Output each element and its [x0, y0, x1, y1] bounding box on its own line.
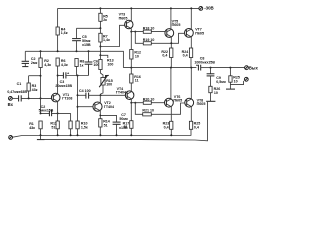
- wire VT2 emitter path: [100, 111, 116, 122]
- capacitor C4: [78, 89, 127, 99]
- resistor R2: [39, 51, 51, 75]
- resistor R14: [99, 119, 110, 136]
- svg-text:R21 10: R21 10: [142, 109, 154, 113]
- node VT2 emitter jog: [99, 115, 101, 117]
- wire ground rail A: [13, 136, 192, 138]
- svg-text:C1: C1: [17, 82, 22, 86]
- wire VT3emitter long vertical: [130, 32, 132, 74]
- node rail 77.2: [77, 134, 79, 136]
- terminal ground input: [9, 136, 13, 140]
- wire y113 line: [41, 112, 71, 114]
- node 171,43: [170, 42, 172, 44]
- wire VT7 emitter to R24: [190, 37, 192, 48]
- node 100,95.3: [100, 94, 102, 96]
- node 100,46.7: [99, 46, 101, 48]
- ground R27: [226, 88, 235, 90]
- svg-text:ГТ404: ГТ404: [104, 105, 114, 109]
- wire VT3 base feed: [100, 25, 124, 46]
- trimmer R15: [99, 75, 113, 95]
- node 191.3,67.6: [190, 67, 192, 69]
- capacitor C5 electrolytic: [72, 28, 91, 51]
- svg-text:R18 10: R18 10: [143, 27, 155, 31]
- resistor R19: [143, 38, 155, 45]
- resistor R25: [189, 121, 200, 135]
- svg-text:2к: 2к: [103, 18, 107, 22]
- wire stub R13: [100, 55, 107, 58]
- node 58,51: [57, 50, 59, 52]
- wire mid bias line y51: [25, 51, 123, 67]
- wire VT4 emitter down to R17: [130, 103, 132, 121]
- wire VT1 collector: [57, 76, 59, 94]
- label R13: [107, 59, 114, 67]
- node emitter VT4 a: [130, 102, 132, 104]
- svg-text:10: 10: [214, 91, 218, 95]
- wire R4 to node51: [57, 35, 59, 51]
- svg-text:11: 11: [135, 79, 139, 83]
- ground symbol main: [37, 135, 45, 139]
- capacitor C3 line: [55, 71, 88, 88]
- node 230.4,67.6: [229, 67, 231, 69]
- wire VT4 emitter nodes: [130, 99, 132, 103]
- wire VT2 base: [78, 106, 93, 108]
- resistor R11 vt1 emitter: [50, 121, 59, 135]
- capacitor C2 series: [39, 105, 54, 116]
- svg-text:Вх: Вх: [8, 102, 14, 107]
- wire R20 row: [131, 102, 164, 104]
- wire R7 to node55: [99, 47, 101, 56]
- node input base: [28, 97, 30, 99]
- transistor VT6 output bottom-left: [165, 95, 183, 107]
- wire return line B: [41, 102, 208, 141]
- node 40.5,98.4: [40, 97, 42, 99]
- transistor VT8 output bottom-right: [185, 98, 206, 107]
- node 77.2,95.3: [77, 94, 79, 96]
- capacitor C8 output electrolytic: [194, 56, 215, 70]
- resistor R20: [143, 98, 155, 105]
- resistor R23: [163, 121, 173, 135]
- svg-text:1,4к: 1,4к: [103, 38, 110, 42]
- svg-text:51: 51: [51, 125, 55, 129]
- node 100,55.3: [99, 54, 101, 56]
- resistor R26: [209, 86, 220, 101]
- wire R21 row: [135, 103, 184, 115]
- svg-text:0,4: 0,4: [164, 125, 169, 129]
- wire R2 lower leg: [40, 76, 42, 114]
- wire VT7 collector: [190, 8, 192, 29]
- node emitter VT3 b: [134, 31, 136, 33]
- node rail-VT7 collector: [190, 7, 192, 9]
- wire R18 row: [131, 31, 165, 33]
- svg-text:х15В: х15В: [119, 126, 128, 130]
- wire y113 corner down: [70, 113, 72, 121]
- wire x77 column: [77, 76, 79, 122]
- svg-text:100: 100: [107, 63, 113, 67]
- wire top supply rail: [58, 7, 199, 9]
- wire VT3 emitter: [130, 28, 132, 31]
- resistor R12: [130, 50, 141, 60]
- node rail 100: [99, 134, 101, 136]
- transistor VT4 driver bottom: [116, 87, 134, 100]
- wire output line y67.6: [123, 67, 196, 69]
- svg-text:П605: П605: [119, 16, 128, 20]
- svg-text:-30B: -30B: [204, 6, 214, 11]
- terminal +30V: [199, 6, 214, 11]
- svg-text:1,6к: 1,6к: [61, 31, 68, 35]
- svg-text:100: 100: [106, 83, 112, 87]
- resistor R27 column: [229, 68, 240, 89]
- svg-text:10: 10: [234, 79, 238, 83]
- transistor VT1 input: [51, 93, 72, 102]
- terminal output ground: [230, 77, 248, 84]
- resistor R21: [142, 109, 154, 116]
- svg-text:0,4: 0,4: [183, 54, 188, 58]
- resistor R10: [76, 121, 88, 135]
- node rail 171.3: [170, 134, 172, 136]
- capacitor C1 input: [7, 82, 51, 102]
- wire output right: [211, 67, 245, 69]
- svg-text:4,3к: 4,3к: [44, 63, 51, 67]
- transistor VT2: [93, 101, 114, 111]
- resistor R12: [69, 121, 72, 135]
- wire C6 riser: [88, 64, 90, 75]
- wire bias node y75.7: [29, 75, 41, 77]
- svg-text:х15В: х15В: [82, 43, 91, 47]
- svg-text:5мкх15В: 5мкх15В: [39, 108, 54, 112]
- node rail-VT3 collector: [130, 7, 132, 9]
- input terminal: [8, 97, 14, 108]
- svg-text:R20 10: R20 10: [143, 98, 155, 102]
- node 41,75.7: [40, 75, 42, 77]
- svg-text:C4 100: C4 100: [79, 89, 91, 93]
- resistor R9: [99, 55, 103, 77]
- svg-text:10: 10: [135, 54, 139, 58]
- svg-text:R19 10: R19 10: [143, 38, 155, 42]
- node 57.7,75.5: [57, 75, 59, 77]
- svg-text:0,47мкх63В: 0,47мкх63В: [7, 90, 27, 94]
- node 131,67.6: [130, 67, 132, 69]
- svg-text:+: +: [67, 71, 70, 75]
- wire VT8 emitter to R25: [190, 107, 192, 122]
- svg-text:43к: 43к: [29, 126, 35, 130]
- wire VT6 collector: [170, 68, 172, 99]
- node emitter VT4 b: [134, 102, 136, 104]
- node rail 58: [57, 134, 59, 136]
- node 76,51: [76, 50, 78, 52]
- terminal output: [245, 66, 259, 71]
- svg-text:1к: 1к: [80, 63, 84, 67]
- resistor R17: [123, 121, 133, 136]
- svg-text:0,5мк: 0,5мк: [216, 80, 226, 84]
- wire VT5 collector: [170, 8, 172, 29]
- svg-text:ГТ404: ГТ404: [116, 91, 126, 95]
- capacitor C9 zobel: [207, 68, 226, 87]
- transistor VT5 output top-left: [165, 20, 181, 38]
- svg-text:0,4: 0,4: [162, 54, 167, 58]
- capacitor C7: [113, 113, 128, 136]
- resistor R4: [56, 27, 68, 35]
- node emitter VT3 a: [130, 31, 132, 33]
- node 40.7,113.4: [40, 112, 42, 114]
- svg-text:50мк: 50мк: [119, 117, 128, 121]
- svg-text:2мк: 2мк: [31, 61, 38, 65]
- resistor R5: [99, 8, 108, 28]
- wire R25 corner to rail: [190, 134, 192, 136]
- svg-text:4,3к: 4,3к: [61, 63, 68, 67]
- svg-text:51: 51: [104, 123, 108, 127]
- transistor VT7 output top-right: [185, 28, 205, 38]
- transistor VT3 driver top: [119, 13, 133, 29]
- svg-text:1,5к: 1,5к: [81, 125, 88, 129]
- svg-text:C7: C7: [121, 113, 126, 117]
- resistor R18: [143, 27, 155, 34]
- node 210.7,67.6: [210, 67, 212, 69]
- resistor R8: [75, 59, 84, 76]
- svg-text:П605: П605: [197, 102, 206, 106]
- wire VT2 collector: [99, 95, 101, 102]
- wire R19 row: [135, 32, 184, 44]
- wire VT6 emitter to R23: [170, 107, 172, 122]
- svg-text:Вых: Вых: [249, 66, 259, 71]
- svg-text:П605: П605: [195, 31, 204, 35]
- node rail 131.3: [130, 134, 132, 136]
- svg-text:0,4: 0,4: [194, 125, 199, 129]
- node 58,113.4: [57, 112, 59, 114]
- resistor R7: [99, 28, 110, 46]
- wire rail left drop to R4: [57, 8, 59, 27]
- node 170.9,67.6: [170, 67, 172, 69]
- svg-text:43к: 43к: [32, 88, 38, 92]
- node 77.2,106.7: [77, 106, 79, 108]
- capacitor C6: [85, 51, 100, 75]
- resistor R3: [27, 76, 38, 99]
- wire VT8 collector: [190, 68, 192, 99]
- node rail-VT5 collector: [170, 7, 172, 9]
- resistor R22: [161, 48, 173, 68]
- svg-text:20мкх15В: 20мкх15В: [55, 84, 72, 88]
- svg-text:П605: П605: [172, 23, 181, 27]
- wire VT3 collector: [130, 8, 132, 21]
- ground zobel: [206, 100, 215, 102]
- node rail-R5: [99, 7, 101, 9]
- wire VT5 emitter to R22: [170, 37, 172, 48]
- capacitor C2a with ground: [22, 51, 38, 66]
- node 100,28: [99, 27, 101, 29]
- node rail 116.4: [116, 134, 118, 136]
- node rail 40.7: [40, 134, 42, 136]
- svg-text:ГТ108: ГТ108: [62, 97, 72, 101]
- resistor R1: [29, 121, 42, 135]
- node 41,51: [40, 50, 42, 52]
- wire VT1 emitter down: [57, 102, 59, 121]
- svg-text:1000мкх25В: 1000мкх25В: [194, 60, 215, 64]
- node 77.2,75.5: [77, 75, 79, 77]
- node 88.5,51: [88, 50, 90, 52]
- wire y28 R5 branch: [77, 27, 101, 29]
- svg-text:П605: П605: [173, 98, 182, 102]
- resistor R6 (VT1 collector upper): [56, 58, 68, 76]
- node rail 70.6: [70, 134, 72, 136]
- resistor R24: [182, 48, 193, 68]
- resistor R16: [130, 74, 141, 91]
